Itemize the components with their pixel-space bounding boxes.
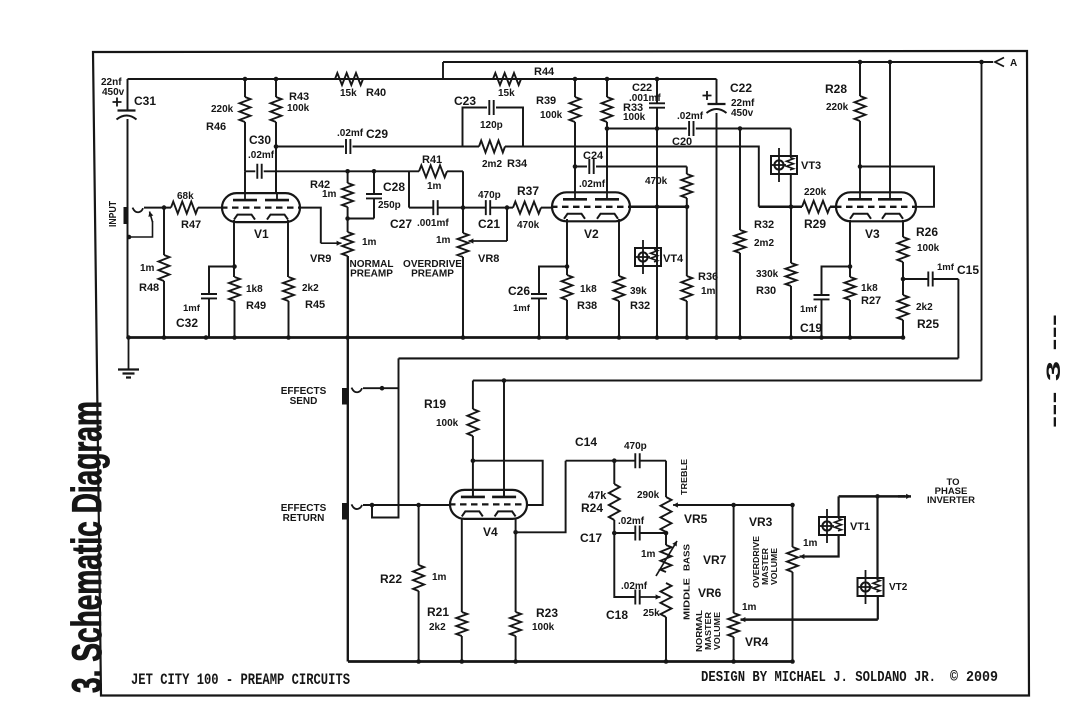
- label R25 2k2: [916, 302, 933, 313]
- junction cathode C32 node: [232, 264, 237, 269]
- label R32b 2m2: [754, 238, 774, 249]
- wire rail riser to A wire: [442, 62, 444, 79]
- svg-text:V2: V2: [584, 227, 599, 241]
- wire VR3 riser: [792, 505, 794, 547]
- svg-text:C29: C29: [366, 127, 388, 141]
- svg-text:C14: C14: [575, 435, 597, 449]
- label V1: [254, 227, 269, 241]
- label VOLUME (rotated): [770, 547, 779, 585]
- resistor R45: [283, 277, 294, 301]
- label C22b 22mf: [731, 98, 755, 109]
- label TREBLE (rotated): [679, 459, 689, 495]
- label C28 250p: [378, 200, 401, 211]
- wire VR5 top: [665, 461, 667, 497]
- label C17: [580, 531, 602, 545]
- label R19: [424, 397, 446, 411]
- effects send hook: [352, 388, 363, 393]
- svg-text:R32: R32: [754, 219, 774, 231]
- label VT4: [663, 253, 684, 265]
- svg-text:VOLUME: VOLUME: [770, 547, 779, 585]
- label R38: [577, 300, 597, 312]
- svg-text:1m: 1m: [436, 235, 451, 246]
- potentiometer VR3 wiper: [800, 554, 839, 559]
- label R21 2k2: [429, 622, 446, 633]
- label R42: [310, 179, 330, 191]
- label R45 2k2: [302, 283, 319, 294]
- input jack contact arrow: [148, 212, 153, 223]
- node A arrowhead: [995, 58, 1004, 67]
- junction ground bus x657: [655, 335, 660, 340]
- svg-text:MIDDLE: MIDDLE: [682, 578, 692, 620]
- label VT1: [850, 521, 870, 533]
- label R33: [623, 102, 643, 114]
- label C32: [176, 316, 198, 330]
- label R29: [804, 217, 826, 231]
- resistor R22: [413, 565, 424, 591]
- resistor R29: [802, 201, 830, 213]
- svg-text:R49: R49: [246, 300, 266, 312]
- potentiometer VR6 middle: [661, 583, 672, 617]
- label MASTER2 (rotated): [704, 612, 713, 650]
- resistor R49 lead: [234, 301, 236, 338]
- optocoupler VT3 lead: [790, 129, 792, 207]
- svg-text:3. Schematic Diagram: 3. Schematic Diagram: [63, 401, 110, 693]
- capacitor C18 leads: [614, 533, 635, 597]
- label R42 1m: [322, 189, 337, 200]
- junction x687 y207: [685, 205, 690, 210]
- svg-text:JET CITY 100 - PREAMP CIRCUITS: JET CITY 100 - PREAMP CIRCUITS: [131, 671, 350, 689]
- resistor R19 lead: [472, 436, 474, 497]
- label R43 100k: [287, 103, 310, 114]
- svg-text:15k: 15k: [498, 88, 515, 99]
- svg-text:1m: 1m: [140, 263, 155, 274]
- svg-text:.02mf: .02mf: [677, 111, 704, 122]
- svg-text:MASTER: MASTER: [761, 548, 770, 585]
- wire cathode to C14 row: [516, 461, 566, 533]
- svg-text:VR4: VR4: [745, 635, 769, 649]
- input jack tip hook: [133, 208, 144, 213]
- svg-text:1m: 1m: [432, 572, 447, 583]
- label PREAMP: [350, 269, 393, 280]
- title: 3. Schematic Diagram (rotated): [63, 401, 110, 693]
- capacitor C22 22mf: [703, 91, 727, 113]
- junction ground bus x128: [126, 335, 131, 340]
- svg-text:.02mf: .02mf: [579, 179, 606, 190]
- junction return R22: [416, 503, 421, 508]
- label R48: [139, 282, 159, 294]
- svg-text:R44: R44: [534, 66, 555, 78]
- potentiometer VR4: [728, 613, 739, 637]
- svg-text:1m: 1m: [803, 538, 818, 549]
- svg-text:PREAMP: PREAMP: [350, 269, 393, 280]
- svg-text:1k8: 1k8: [861, 283, 878, 294]
- capacitor C31: [113, 98, 137, 120]
- svg-text:100k: 100k: [532, 622, 555, 633]
- label C27: [390, 217, 412, 231]
- wire top A wire: [443, 61, 993, 63]
- wire V1 right plate up: [275, 171, 277, 193]
- label V3: [865, 227, 880, 241]
- capacitor C19: [814, 295, 830, 299]
- svg-text:INPUT: INPUT: [108, 201, 119, 227]
- label R44: [534, 66, 555, 78]
- label V2: [584, 227, 599, 241]
- svg-text:C28: C28: [383, 180, 405, 194]
- junction rail x607: [605, 77, 610, 82]
- svg-text:V4: V4: [483, 525, 498, 539]
- optocoupler VT4: [635, 240, 661, 274]
- potentiometer VR4 wiper: [741, 617, 878, 622]
- wire C14 row: [566, 460, 666, 462]
- junction send tip: [380, 386, 385, 391]
- input jack contact to ground: [129, 221, 153, 237]
- resistor R33: [602, 97, 613, 122]
- capacitor C15: [928, 272, 932, 287]
- svg-text:470k: 470k: [517, 220, 540, 231]
- wire V2 grid output: [630, 206, 687, 209]
- svg-text:VR3: VR3: [749, 515, 773, 529]
- svg-text:1m: 1m: [701, 286, 716, 297]
- svg-text:.02mf: .02mf: [337, 128, 364, 139]
- resistor 470k: [681, 174, 692, 198]
- svg-text:VT3: VT3: [801, 160, 821, 172]
- capacitor C14: [635, 453, 639, 468]
- resistor R34: [479, 141, 505, 153]
- svg-text:OVERDRIVE: OVERDRIVE: [752, 535, 761, 588]
- label R41 1m: [427, 181, 442, 192]
- label R36: [698, 271, 718, 283]
- label C22b: [730, 81, 752, 95]
- label R45: [305, 299, 325, 311]
- input jack body: [124, 207, 129, 224]
- svg-text:250p: 250p: [378, 200, 401, 211]
- potentiometer VR8 wiper arrow: [469, 208, 508, 244]
- svg-text:R43: R43: [289, 91, 309, 103]
- svg-text:.02mf: .02mf: [621, 581, 648, 592]
- junction R27 C19 node: [848, 264, 853, 269]
- svg-text:VR7: VR7: [703, 553, 727, 567]
- resistor R26: [898, 237, 909, 262]
- label INPUT (rotated): [108, 201, 119, 227]
- junction ground bus x164: [162, 335, 167, 340]
- svg-text:SEND: SEND: [290, 396, 318, 407]
- svg-text:R30: R30: [756, 285, 776, 297]
- label MIDDLE (rotated): [682, 578, 692, 620]
- junction on A wire x981: [979, 60, 984, 65]
- wire C24 row: [575, 166, 687, 168]
- junction on A wire x860: [858, 60, 863, 65]
- wire V1 right cathode: [287, 220, 289, 277]
- label R29 220k: [804, 187, 827, 198]
- label C18: [606, 608, 628, 622]
- label R27: [861, 295, 881, 307]
- optocoupler VT1 lead: [800, 496, 839, 556]
- svg-text:R29: R29: [804, 217, 826, 231]
- effects return hook: [352, 504, 363, 509]
- potentiometer VR9 leads: [347, 219, 349, 662]
- svg-text:VR5: VR5: [684, 512, 708, 526]
- svg-text:VR9: VR9: [310, 253, 331, 265]
- label BASS (rotated): [682, 544, 692, 571]
- wire V3 left plate up: [859, 167, 861, 193]
- label VR7 1m: [641, 549, 656, 560]
- label VT2: [889, 582, 908, 593]
- label C14 470p: [624, 441, 647, 452]
- label R33 100k: [623, 112, 646, 123]
- wire V4 left cathode: [461, 518, 463, 612]
- svg-text:330k: 330k: [756, 269, 779, 280]
- junction bottom bus x461: [460, 659, 465, 664]
- label C31 22nf: [101, 77, 122, 88]
- wire R19 top: [472, 381, 474, 410]
- effects return jack body: [342, 503, 348, 520]
- svg-text:25k: 25k: [643, 608, 660, 619]
- resistor R46 leads: [244, 79, 246, 171]
- capacitor C17: [635, 526, 639, 541]
- resistor R21 lead: [461, 636, 463, 662]
- svg-text:1mf: 1mf: [937, 262, 955, 273]
- junction rail x245: [243, 77, 248, 82]
- label R27 1k8: [861, 283, 878, 294]
- svg-text:--- 3 ---: --- 3 ---: [1044, 314, 1065, 428]
- svg-text:R47: R47: [181, 219, 201, 231]
- label C14: [575, 435, 597, 449]
- triode V4: [449, 489, 528, 519]
- label R43: [289, 91, 309, 103]
- capacitor C18 to VR6 wiper: [640, 594, 661, 599]
- label MASTER (rotated): [761, 548, 770, 585]
- label OVERDRIVE (rotated): [752, 535, 761, 588]
- label R24: [581, 501, 603, 515]
- junction on A wire x890: [888, 60, 893, 65]
- triode V1: [221, 193, 301, 223]
- junction return normal: [370, 503, 375, 508]
- svg-text:C15: C15: [957, 263, 979, 277]
- svg-text:VT2: VT2: [889, 582, 908, 593]
- label R19 100k: [436, 418, 459, 429]
- label C15: [957, 263, 979, 277]
- svg-text:470k: 470k: [645, 176, 668, 187]
- junction x575 y166: [573, 164, 578, 169]
- junction bottom bus x666: [664, 659, 669, 664]
- svg-text:100k: 100k: [540, 110, 563, 121]
- label C21: [478, 217, 500, 231]
- svg-text:.02mf: .02mf: [248, 150, 275, 161]
- resistor R43: [271, 97, 282, 122]
- label R40: [366, 87, 386, 99]
- optocoupler VT1: [819, 509, 845, 543]
- optocoupler VT2: [858, 570, 884, 604]
- junction x607 y128: [605, 126, 610, 131]
- svg-text:V1: V1: [254, 227, 269, 241]
- svg-text:1m: 1m: [362, 237, 377, 248]
- junction ground bus x740: [738, 335, 743, 340]
- label EFFECTS (send): [281, 386, 327, 397]
- junction x791 y207: [789, 205, 794, 210]
- potentiometer VR8: [458, 233, 469, 257]
- label VT3: [801, 160, 821, 172]
- resistor R46: [240, 97, 251, 122]
- wire R42/C28 bottom node: [348, 218, 374, 220]
- svg-text:100k: 100k: [623, 112, 646, 123]
- label C24: [583, 150, 604, 162]
- wire input jack to R47: [144, 207, 171, 209]
- svg-text:R40: R40: [366, 87, 386, 99]
- svg-text:C27: C27: [390, 217, 412, 231]
- wire box output to V3 feed: [523, 147, 759, 207]
- svg-text:NORMAL: NORMAL: [695, 610, 704, 652]
- svg-text:R28: R28: [825, 82, 847, 96]
- junction C17 VR5: [664, 531, 669, 536]
- svg-text:C17: C17: [580, 531, 602, 545]
- junction ground bus x206: [204, 335, 209, 340]
- label C31 450v: [102, 87, 125, 98]
- wire C15 riser to send bus: [957, 279, 959, 358]
- capacitor C26: [531, 294, 547, 298]
- junction bottom bus x418: [416, 659, 421, 664]
- junction x860 y166: [858, 164, 863, 169]
- resistor R37: [513, 202, 541, 214]
- svg-text:C30: C30: [249, 133, 271, 147]
- label R30: [756, 285, 776, 297]
- label R47 68k: [177, 191, 194, 202]
- label R46: [206, 121, 226, 133]
- junction ground bus x687: [685, 335, 690, 340]
- label C22a: [632, 82, 652, 94]
- wire box left side: [372, 358, 399, 517]
- resistor R45 lead: [288, 301, 290, 338]
- svg-text:C21: C21: [478, 217, 500, 231]
- svg-text:C22: C22: [730, 81, 752, 95]
- svg-text:2m2: 2m2: [482, 159, 502, 170]
- label PHASE: [935, 486, 968, 497]
- junction x657 y128: [655, 126, 660, 131]
- svg-text:R36: R36: [698, 271, 718, 283]
- footer: (C) 2009: [950, 669, 998, 686]
- label R32a 39k: [630, 286, 647, 297]
- resistor R30: [786, 263, 797, 286]
- label R44 15k: [498, 88, 515, 99]
- svg-text:C23: C23: [454, 94, 476, 108]
- frame border: [93, 51, 1029, 696]
- label VOLUME2 (rotated): [713, 611, 722, 650]
- label R25: [917, 317, 939, 331]
- label VR5 290k: [637, 490, 660, 501]
- label C28: [383, 180, 405, 194]
- label VR9: [310, 253, 331, 265]
- resistor R22 leads: [418, 505, 420, 662]
- svg-text:1m: 1m: [742, 602, 757, 613]
- svg-text:C31: C31: [134, 94, 156, 108]
- capacitor C22 .001mf: [649, 103, 665, 107]
- label R47: [181, 219, 201, 231]
- potentiometer VR5 treble: [661, 497, 672, 532]
- capacitor C31 lead: [127, 79, 129, 338]
- label R28: [825, 82, 847, 96]
- junction R19 bottom: [471, 458, 476, 463]
- svg-text:VR6: VR6: [698, 586, 722, 600]
- svg-text:R41: R41: [422, 154, 442, 166]
- label C20: [672, 136, 692, 148]
- wire V3 right cathode: [902, 220, 904, 338]
- resistor R48 leads: [163, 208, 165, 338]
- label C24 .02mf: [579, 179, 606, 190]
- wire VR4 riser: [733, 505, 735, 613]
- svg-text:120p: 120p: [480, 120, 503, 131]
- resistor R44: [493, 73, 521, 85]
- label C22a .001mf: [629, 93, 661, 104]
- triode V2: [551, 192, 631, 222]
- resistor R32b 2m2 leads: [739, 129, 741, 338]
- resistor R24: [609, 484, 620, 520]
- resistor R37 wire: [507, 207, 552, 209]
- wire effects send bus: [399, 357, 959, 359]
- junction x276 y146: [274, 144, 279, 149]
- svg-text:68k: 68k: [177, 191, 194, 202]
- svg-text:2k2: 2k2: [302, 283, 319, 294]
- label INVERTER: [927, 495, 975, 506]
- resistor R48: [159, 255, 170, 281]
- junction ground bus x903: [901, 335, 906, 340]
- svg-text:450v: 450v: [731, 108, 754, 119]
- capacitor C27 wire: [409, 207, 463, 209]
- wire V3 left cathode: [849, 220, 851, 338]
- label C32 1mf: [183, 303, 201, 314]
- junction R38 C26 node: [565, 264, 570, 269]
- resistor R36 leads: [686, 207, 688, 338]
- label C17 .02mf: [618, 516, 645, 527]
- resistor R24 leads: [613, 461, 615, 533]
- svg-text:C32: C32: [176, 316, 198, 330]
- label C31: [134, 94, 156, 108]
- junction input ground: [127, 235, 132, 240]
- resistor R27: [845, 277, 856, 300]
- capacitor C28: [366, 194, 382, 198]
- wire send tip: [363, 387, 399, 389]
- label C22b 450v: [731, 108, 754, 119]
- resistor R36: [681, 276, 692, 301]
- resistor R28: [855, 96, 866, 121]
- label R26 100k: [917, 243, 940, 254]
- resistor R39 leads: [574, 79, 576, 193]
- svg-text:1mf: 1mf: [800, 304, 818, 315]
- label C30 .02mf: [248, 150, 275, 161]
- label C23 120p: [480, 120, 503, 131]
- junction C14 R24: [612, 458, 617, 463]
- svg-text:1k8: 1k8: [246, 284, 263, 295]
- footer: DESIGN BY MICHAEL J. SOLDANO JR.: [701, 669, 936, 686]
- capacitor C15 wire: [903, 278, 958, 280]
- label R23 100k: [532, 622, 555, 633]
- junction bottom bus x733: [731, 659, 736, 664]
- svg-text:1k8: 1k8: [580, 284, 597, 295]
- optocoupler VT3: [771, 148, 797, 182]
- label VR5: [684, 512, 708, 526]
- label R40 15k: [340, 88, 357, 99]
- label R22 1m: [432, 572, 447, 583]
- label C27 .001mf: [417, 218, 449, 229]
- resistor R30 leads: [790, 207, 792, 338]
- svg-text:© 2009: © 2009: [950, 669, 998, 686]
- bottom ground bus: [348, 660, 793, 663]
- capacitor C23 box: [463, 108, 524, 147]
- junction ground bus x619: [617, 335, 622, 340]
- label R39: [536, 95, 556, 107]
- svg-text:R46: R46: [206, 121, 226, 133]
- label EFFECTS (return): [281, 503, 327, 514]
- resistor R23 lead: [515, 636, 517, 662]
- svg-text:TREBLE: TREBLE: [679, 459, 689, 495]
